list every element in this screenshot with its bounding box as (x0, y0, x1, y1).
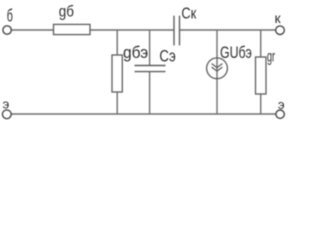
terminal э left (2, 110, 11, 119)
svg-text:б: б (7, 6, 13, 26)
wire top rail: Cк right plate to к terminal (180, 29, 276, 31)
svg-text:Cк: Cк (181, 5, 196, 22)
terminal к (276, 26, 285, 35)
wire gг branch lower (260, 94, 262, 114)
resistor gб (54, 24, 91, 34)
capacitor Cэ plates (135, 65, 166, 67)
svg-text:gбэ: gбэ (123, 43, 148, 62)
svg-text:э: э (3, 97, 10, 112)
terminal б (3, 26, 11, 34)
resistor gбэ (112, 55, 122, 92)
svg-text:gr: gr (267, 49, 275, 66)
svg-text:GUбэ: GUбэ (220, 43, 252, 62)
svg-text:gб: gб (59, 3, 74, 20)
wire bottom rail: э to э (11, 113, 276, 115)
svg-text:э: э (278, 97, 285, 112)
wire gг branch upper (260, 30, 262, 57)
svg-text:к: к (275, 10, 282, 26)
wire top rail: б terminal to gб resistor (11, 29, 53, 31)
svg-text:Cэ: Cэ (159, 47, 175, 65)
wire Cэ branch lower (149, 72, 151, 114)
wire top rail: gб resistor to Cк left plate (90, 29, 174, 31)
wire gбэ branch lower (116, 92, 118, 114)
wire Cэ branch upper (149, 30, 151, 66)
wire current-source branch (216, 30, 218, 114)
resistor gг (256, 57, 267, 94)
wire gбэ branch upper (116, 30, 118, 55)
terminal э right (276, 110, 284, 118)
current source GUбэ (207, 58, 228, 79)
capacitor Cк plates (173, 16, 175, 46)
